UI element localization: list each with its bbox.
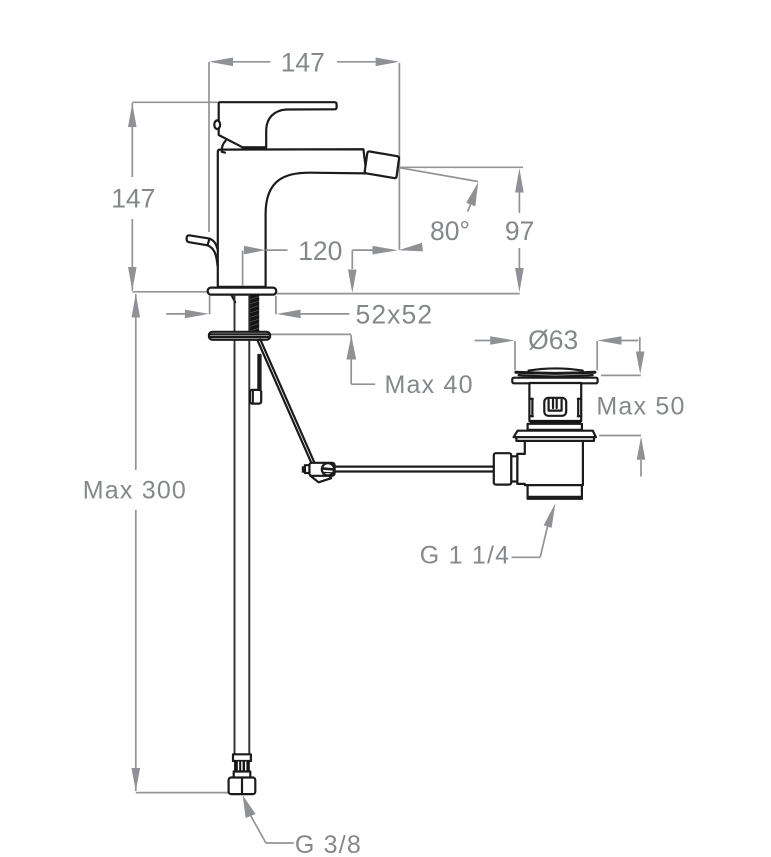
faucet body with spout: [218, 149, 367, 287]
drain cap dome: [516, 368, 595, 376]
svg-text:147: 147: [111, 184, 155, 214]
dimension 120: [243, 236, 423, 293]
aerator: [365, 151, 399, 178]
svg-text:G 1 1/4: G 1 1/4: [420, 542, 510, 570]
svg-text:97: 97: [505, 216, 534, 246]
wire: deck level extension right: [277, 293, 520, 295]
hose top flare: [231, 295, 235, 303]
hose lower collar: [234, 772, 251, 778]
dimension 97: [400, 167, 535, 292]
threaded stud: [250, 295, 259, 333]
hose ferrule: [234, 761, 250, 772]
hose nut G 3/8: [229, 778, 256, 795]
svg-text:147: 147: [281, 48, 325, 78]
label G 3/8 with leader: [243, 795, 362, 857]
drain rod nut: [511, 456, 517, 481]
svg-text:Max 300: Max 300: [83, 477, 187, 505]
dimension diameter 63: [475, 325, 639, 371]
wire: deck level extension left: [132, 291, 208, 293]
linkage diagonal rod: [258, 341, 312, 463]
drain cap flange: [512, 378, 597, 384]
svg-text:80°: 80°: [430, 216, 470, 246]
handle motion arc: [222, 141, 226, 153]
svg-text:G 3/8: G 3/8: [295, 831, 362, 857]
pop-up knob rod: [187, 235, 210, 245]
svg-text:Ø63: Ø63: [528, 325, 578, 355]
drain upper body: [529, 383, 581, 421]
drain seal ring: [530, 420, 581, 424]
dimension Max 40: [270, 334, 473, 399]
drain big washer: [514, 431, 596, 441]
handle set screw: [214, 120, 220, 129]
dimension 147 vertical: [111, 103, 155, 291]
label G 1 1/4 with leader: [420, 503, 556, 570]
base plate: [208, 288, 277, 295]
horseshoe washer: [209, 332, 270, 340]
dimension 80 degrees: [399, 168, 478, 247]
drain overflow detail: [544, 398, 566, 416]
svg-text:Max 40: Max 40: [385, 371, 474, 399]
drain tail G 1 1/4 thread: [528, 485, 582, 499]
handle base bottom line: [243, 146, 266, 148]
handle lever: [219, 102, 337, 147]
svg-text:120: 120: [298, 236, 342, 266]
clevis joint: [302, 463, 335, 483]
dimension 147 horizontal top: [209, 48, 399, 250]
pull rod clamp block: [250, 390, 261, 404]
supply hose: [234, 295, 236, 755]
drain lower body: [517, 441, 583, 485]
drain collar section: [528, 424, 582, 430]
dimension 52x52: [166, 296, 433, 330]
dimension Max 300: [77, 294, 242, 793]
svg-text:Max 50: Max 50: [596, 393, 685, 421]
hose end collar: [233, 754, 251, 761]
wire: handle-top extension line: [132, 101, 218, 103]
pull rod: [257, 355, 259, 390]
svg-text:52x52: 52x52: [356, 300, 434, 330]
dimension Max 50: [596, 337, 685, 477]
horizontal linkage rod: [334, 466, 494, 468]
